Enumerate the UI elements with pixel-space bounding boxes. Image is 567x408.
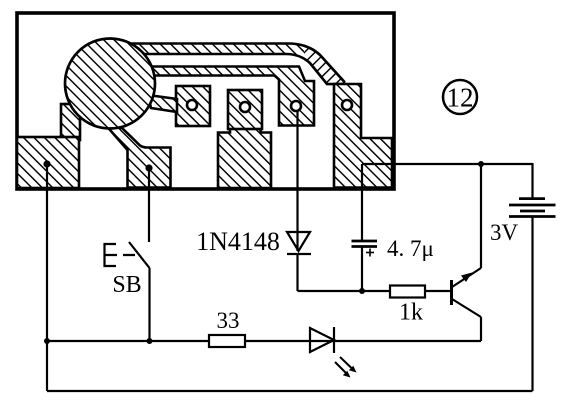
svg-text:4. 7μ: 4. 7μ xyxy=(387,236,434,261)
svg-text:33: 33 xyxy=(217,308,240,333)
svg-text:3V: 3V xyxy=(490,220,519,245)
svg-text:1k: 1k xyxy=(399,300,423,326)
svg-text:1N4148: 1N4148 xyxy=(196,227,280,256)
svg-text:12: 12 xyxy=(447,83,474,113)
svg-text:SB: SB xyxy=(112,272,141,298)
